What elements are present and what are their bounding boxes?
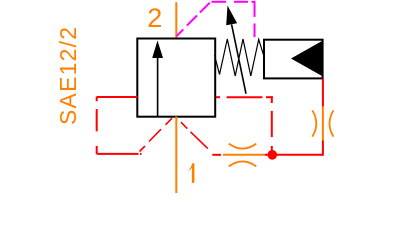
port 2 line — [175, 2, 177, 38]
callout leader (magenta dashed diagonal) — [177, 3, 210, 37]
orifice arcs vertical — [312, 110, 333, 136]
bottom line orange segment (orifice) — [223, 154, 265, 156]
pilot line left bottom (red dashed) — [97, 153, 142, 155]
port label 1 — [188, 163, 194, 183]
pilot line right vertical (red dashed) — [271, 96, 273, 155]
orifice arcs horizontal — [229, 144, 256, 167]
pilot line left top (red) — [97, 96, 138, 98]
pilot line right top (red dashed) — [216, 96, 273, 98]
spring — [215, 39, 265, 76]
label SAE12/2 — [55, 26, 81, 125]
valve body box — [137, 39, 215, 117]
right vertical red upper — [322, 78, 324, 106]
solenoid triangle — [291, 41, 322, 76]
svg-text:SAE12/2: SAE12/2 — [55, 26, 81, 125]
spring adjust arrow head — [226, 6, 237, 26]
svg-text:2: 2 — [147, 3, 162, 33]
valve flow arrow shaft — [157, 58, 159, 118]
callout box right edge (magenta dashed) — [254, 2, 256, 37]
solenoid box — [264, 40, 323, 79]
spring adjust arrow shaft — [232, 25, 246, 94]
right vertical red lower — [322, 141, 324, 156]
junction dot — [268, 150, 278, 160]
drain diagonal right (red dashed) — [181, 122, 208, 148]
callout box top edge (magenta dashed) — [212, 1, 256, 3]
right vertical orange segment (orifice) — [322, 106, 324, 140]
bottom line red right segment — [265, 154, 323, 156]
port 1 line — [175, 117, 177, 194]
valve flow arrow head — [152, 41, 163, 59]
pilot line left vertical (red dashed) — [96, 97, 98, 154]
bottom line red left stub — [212, 154, 221, 156]
drain diagonal left (red dashed) — [140, 118, 173, 151]
